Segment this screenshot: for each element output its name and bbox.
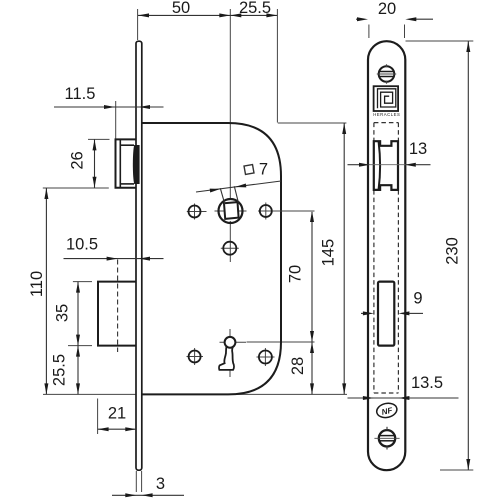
svg-text:HERACLES: HERACLES (373, 112, 400, 117)
svg-text:230: 230 (444, 237, 462, 265)
svg-text:13.5: 13.5 (411, 374, 443, 392)
svg-text:13: 13 (409, 140, 427, 158)
svg-text:25.5: 25.5 (51, 354, 69, 386)
svg-text:21: 21 (108, 405, 126, 423)
svg-text:7: 7 (259, 161, 268, 179)
svg-text:11.5: 11.5 (65, 85, 96, 103)
svg-text:110: 110 (28, 271, 46, 297)
svg-text:145: 145 (320, 239, 338, 267)
svg-text:50: 50 (172, 0, 190, 17)
svg-text:10.5: 10.5 (66, 236, 98, 254)
svg-text:70: 70 (287, 265, 305, 283)
svg-text:35: 35 (54, 304, 72, 322)
svg-text:3: 3 (156, 475, 165, 493)
svg-text:25.5: 25.5 (239, 0, 271, 17)
svg-text:26: 26 (69, 151, 87, 169)
svg-text:20: 20 (378, 0, 396, 18)
svg-text:9: 9 (413, 290, 422, 308)
svg-text:28: 28 (289, 357, 307, 375)
